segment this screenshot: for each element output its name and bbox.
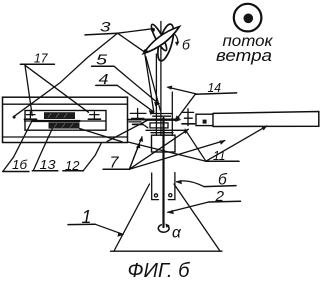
svg-text:2: 2 [214, 188, 224, 205]
svg-text:1б: 1б [12, 157, 28, 172]
svg-text:14: 14 [208, 81, 222, 95]
svg-text:α: α [172, 225, 182, 242]
svg-text:17: 17 [34, 52, 49, 66]
svg-text:7: 7 [110, 155, 120, 172]
svg-text:5: 5 [96, 52, 108, 69]
svg-text:4: 4 [99, 71, 109, 88]
svg-text:3: 3 [100, 19, 111, 35]
svg-text:11: 11 [213, 149, 226, 163]
svg-text:б: б [182, 37, 191, 53]
svg-text:1: 1 [82, 207, 92, 227]
svg-text:13: 13 [40, 157, 57, 172]
svg-text:б: б [218, 172, 228, 189]
svg-text:ветра: ветра [216, 46, 272, 65]
svg-text:12: 12 [65, 158, 80, 173]
svg-text:ФИГ. б: ФИГ. б [128, 259, 191, 280]
